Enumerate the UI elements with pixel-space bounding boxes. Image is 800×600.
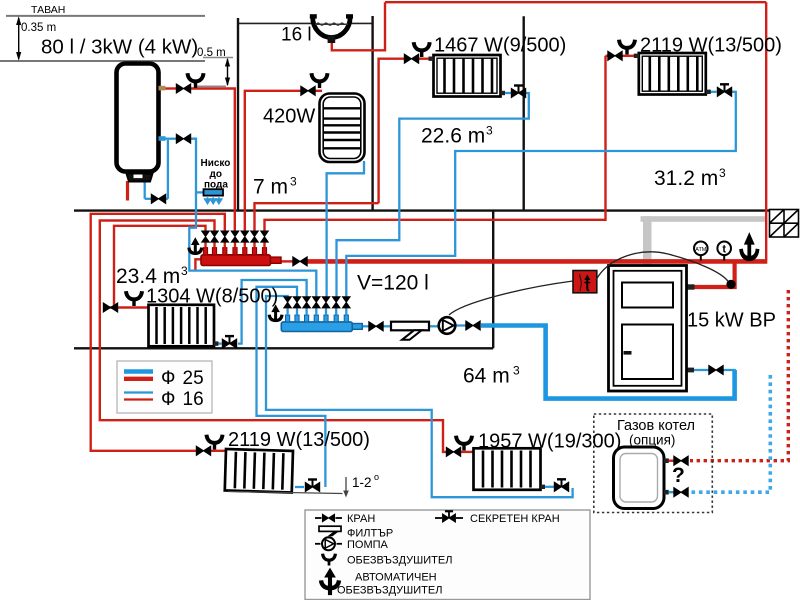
F25 thick lines (124, 369, 153, 373)
air vent 2119TR (619, 40, 635, 55)
valve 1467 return lockshield (511, 86, 525, 98)
radiator 1304 (149, 305, 215, 347)
large auto air vent at boiler (741, 232, 758, 260)
convector arrows (205, 197, 222, 203)
slope arrow 1-2deg (345, 477, 347, 495)
air vent 1467 (414, 42, 430, 57)
air vent towel (312, 73, 328, 88)
ceiling line (6, 15, 205, 17)
0.5m tick bottom (194, 85, 226, 87)
dashed option box (594, 414, 713, 513)
gas boiler blue stub (664, 490, 669, 495)
gas boiler body (614, 447, 665, 509)
boiler top panel (622, 283, 673, 308)
wire tank return with valve (165, 138, 177, 140)
radiator 1957 (474, 448, 541, 490)
boiler return stub (686, 368, 694, 373)
wire port1 run to 1304 (114, 226, 206, 308)
slope reference line (228, 492, 343, 494)
svg-text:ТАВАН: ТАВАН (31, 4, 65, 16)
air vent 1304 (126, 291, 142, 306)
valve tank supply (176, 84, 190, 93)
upper datum line (0, 60, 205, 62)
svg-text:3: 3 (290, 175, 297, 189)
thermostat wire pump side (449, 281, 573, 315)
radiator 2119 bottom-left tilted (225, 449, 293, 492)
svg-text:64 m: 64 m (463, 365, 510, 388)
valve pump group 2 (466, 321, 480, 330)
svg-text:КРАН: КРАН (347, 513, 375, 525)
auto air vent blue manifold (269, 304, 282, 322)
air vent 2119BL (207, 435, 223, 450)
tank port lower (159, 136, 166, 141)
room partition vertical (492, 211, 494, 349)
wire boiler supply elbow (694, 261, 735, 287)
0.5m dimension arrow (227, 59, 229, 85)
wire towel supply from port5 (245, 91, 301, 231)
room partition horizontal (74, 347, 493, 349)
valve 2119BL supply (196, 446, 210, 455)
valve 2119TR return lockshield (717, 84, 731, 96)
radiator 2119 top-right (639, 53, 706, 95)
svg-text:o: o (374, 472, 379, 482)
blue return manifold (269, 297, 362, 332)
manifold red stems (206, 242, 265, 248)
valve 1957 supply (446, 447, 460, 456)
svg-text:АВТОМАТИЧЕН: АВТОМАТИЧЕН (355, 572, 437, 584)
svg-text:ATM: ATM (695, 247, 707, 253)
wire port1 run to 1957 return (266, 296, 573, 497)
legend pump (322, 537, 335, 550)
valve main supply (293, 257, 307, 266)
vessel bottom stem (328, 36, 336, 44)
valve 1304 supply (103, 303, 117, 312)
0.5m tick top (203, 57, 233, 59)
wire manifold outlet to main (281, 260, 293, 262)
valve gas return (674, 488, 688, 497)
valve towel supply (301, 86, 315, 95)
svg-text:?: ? (672, 464, 685, 487)
blue dotted optional gas line (690, 375, 770, 492)
svg-text:(опция): (опция) (629, 433, 675, 448)
svg-text:7 m: 7 m (253, 176, 288, 199)
svg-text:Ф: Ф (161, 368, 175, 389)
filter (391, 322, 429, 340)
wire convector stub (196, 191, 204, 193)
valve gas supply (674, 456, 688, 465)
boiler door handle (624, 351, 632, 355)
wire tank supply from port4 (165, 87, 177, 89)
wire port3 run to 1304 return (238, 280, 307, 344)
svg-text:1304 W(8/500): 1304 W(8/500) (146, 286, 278, 308)
valve 1467 supply (404, 54, 418, 63)
svg-text:2119 W(13/500): 2119 W(13/500) (228, 429, 370, 451)
radiator 1467 stubs (429, 57, 434, 61)
svg-text:16: 16 (183, 389, 204, 410)
expansion vessel 16l bowl (313, 18, 350, 38)
svg-text:ФИЛТЪР: ФИЛТЪР (347, 528, 393, 540)
air vent tank supply (188, 73, 204, 88)
thermostat (573, 271, 597, 293)
svg-text:ОБЕЗВЪЗДУШИТЕЛ: ОБЕЗВЪЗДУШИТЕЛ (347, 555, 452, 567)
wire thick main supply to boiler (307, 259, 767, 264)
wire top main supply line (385, 1, 766, 3)
tank port top (159, 86, 166, 91)
thermostat wire boiler side (596, 252, 729, 282)
boiler door (622, 325, 673, 380)
wire towel return (327, 161, 364, 297)
valve pump group 1 (369, 322, 383, 331)
svg-text:t: t (722, 244, 726, 256)
svg-text:СЕКРЕТЕН КРАН: СЕКРЕТЕН КРАН (470, 513, 560, 525)
radiator 2119TR stubs (634, 54, 639, 58)
wire 2119 top-right return (706, 91, 717, 93)
red supply manifold (189, 231, 281, 266)
legend auto air vent (321, 568, 339, 596)
floor line upper storey (74, 209, 769, 211)
wire port6 run to 1467 (255, 203, 379, 231)
chimney flue gray (641, 216, 767, 222)
wire pump group connections (362, 325, 369, 327)
svg-text:16 l: 16 l (281, 25, 312, 46)
wire boiler return valve stub (694, 369, 710, 371)
svg-text:3: 3 (486, 124, 493, 138)
svg-text:80 l / 3kW (4 kW): 80 l / 3kW (4 kW) (41, 36, 198, 59)
wire manifold left drain stub (195, 259, 201, 270)
wire port3 run to 2119 bottom-left (91, 214, 225, 451)
convector body (204, 189, 224, 195)
svg-text:3: 3 (513, 364, 520, 378)
wire expansion vessel drop (332, 2, 385, 50)
wire port2 run to 1957 (100, 221, 446, 452)
legend lockshield valve (443, 511, 456, 522)
wall 2 (371, 16, 373, 211)
legend valve (322, 514, 334, 522)
manifold valves (202, 231, 210, 242)
F16 thin lines (124, 391, 153, 393)
svg-text:ОБЕЗВЪЗДУШИТЕЛ: ОБЕЗВЪЗДУШИТЕЛ (337, 585, 442, 597)
manifold port stubs (203, 248, 266, 255)
valve tank return (176, 134, 190, 143)
radiator 1957 stubs (541, 485, 546, 489)
tank base stand (127, 174, 153, 182)
svg-text:0.5 m: 0.5 m (197, 47, 226, 59)
valve 1957 return lockshield (554, 479, 568, 491)
svg-text:15 kW ВР: 15 kW ВР (687, 310, 776, 332)
DHW tank 80l (117, 64, 159, 172)
wall 3 (523, 16, 525, 210)
wire junction dot (726, 280, 735, 289)
svg-text:1467 W(9/500): 1467 W(9/500) (434, 35, 566, 57)
svg-text:ПОМПА: ПОМПА (347, 539, 389, 551)
svg-text:до: до (210, 169, 222, 180)
thermometer gauge t (717, 242, 731, 261)
svg-text:Ф: Ф (161, 389, 175, 410)
legend filter (319, 526, 341, 536)
gas boiler red stub (664, 458, 669, 463)
red dotted optional gas line (690, 290, 788, 461)
wire 1467 return (504, 92, 511, 94)
svg-text:0.35 m: 0.35 m (21, 22, 56, 34)
svg-text:22.6 m: 22.6 m (421, 125, 485, 148)
vessel water level (315, 23, 348, 25)
wire tank cold feed (167, 140, 169, 199)
radiator 1304 stubs (214, 341, 219, 345)
valve 1304 return lockshield (222, 336, 236, 348)
wire main riser right (765, 2, 767, 260)
wire port7 run to 2119 top-right (265, 56, 606, 231)
auto air vent red manifold (189, 237, 202, 255)
svg-text:V=120 l: V=120 l (357, 272, 429, 295)
air vent 1957 (456, 436, 472, 451)
wire port2 run to 2119 bottom-left return (257, 287, 326, 487)
svg-text:25: 25 (183, 368, 204, 389)
svg-text:1957 W(19/300): 1957 W(19/300) (478, 431, 621, 453)
towel radiator 420W (320, 94, 365, 163)
valve tank drain (151, 194, 165, 203)
svg-text:3: 3 (181, 264, 188, 278)
chimney hatch box in wall (770, 210, 799, 238)
shelf line (238, 22, 373, 24)
svg-text:1-2: 1-2 (352, 475, 372, 490)
radiator 1467W (434, 55, 501, 97)
valve boiler return (709, 365, 723, 374)
wire thick boiler return (481, 326, 735, 399)
wire 1467 supply riser (379, 59, 404, 204)
boiler supply stub (686, 284, 695, 289)
pump (439, 317, 456, 334)
pressure gauge ATM (694, 242, 708, 261)
svg-text:31.2 m: 31.2 m (654, 167, 718, 190)
0.35m dimension arrow (18, 18, 20, 59)
svg-text:420W: 420W (263, 106, 315, 128)
svg-text:Ниско: Ниско (201, 158, 231, 169)
tank bottom red stub (126, 181, 129, 201)
manifold blue valves (284, 297, 292, 308)
svg-text:3: 3 (719, 166, 726, 180)
valve 2119TR supply (608, 51, 622, 60)
wall 1 (237, 18, 239, 211)
svg-text:2119 W(13/500): 2119 W(13/500) (640, 34, 782, 56)
legend air vent (323, 554, 336, 566)
valve 2119BL return lockshield (305, 480, 319, 492)
